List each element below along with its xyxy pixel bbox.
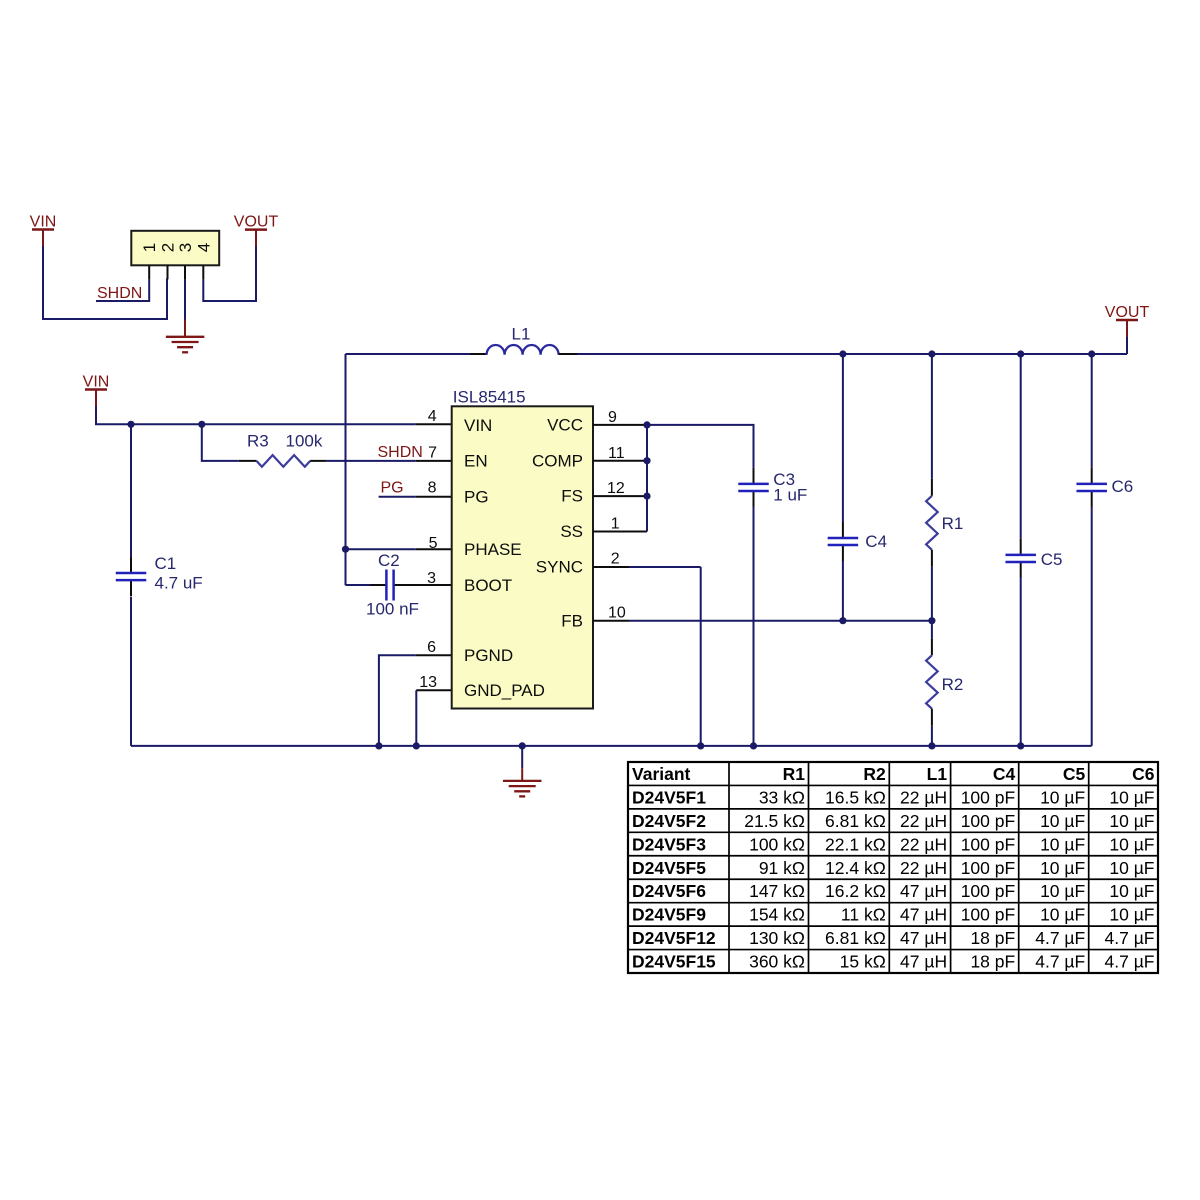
svg-text:D24V5F2: D24V5F2 bbox=[632, 811, 706, 831]
svg-text:R1: R1 bbox=[942, 514, 964, 533]
svg-text:100 pF: 100 pF bbox=[961, 858, 1015, 878]
svg-text:D24V5F5: D24V5F5 bbox=[632, 858, 706, 878]
svg-text:12.4 kΩ: 12.4 kΩ bbox=[825, 858, 886, 878]
svg-text:100 kΩ: 100 kΩ bbox=[749, 834, 805, 854]
svg-text:FS: FS bbox=[561, 487, 583, 506]
svg-text:33 kΩ: 33 kΩ bbox=[759, 787, 805, 807]
svg-text:4.7 µF: 4.7 µF bbox=[1105, 928, 1155, 948]
svg-text:12: 12 bbox=[607, 480, 625, 497]
svg-text:360 kΩ: 360 kΩ bbox=[749, 952, 805, 972]
svg-text:FB: FB bbox=[561, 611, 583, 630]
svg-text:COMP: COMP bbox=[532, 451, 583, 470]
svg-text:BOOT: BOOT bbox=[464, 576, 512, 595]
svg-text:PG: PG bbox=[464, 487, 489, 506]
svg-text:D24V5F9: D24V5F9 bbox=[632, 905, 706, 925]
svg-text:6.81 kΩ: 6.81 kΩ bbox=[825, 928, 886, 948]
svg-text:PG: PG bbox=[381, 479, 404, 496]
svg-text:6.81 kΩ: 6.81 kΩ bbox=[825, 811, 886, 831]
svg-text:10 µF: 10 µF bbox=[1109, 834, 1154, 854]
svg-text:10 µF: 10 µF bbox=[1040, 834, 1085, 854]
svg-text:5: 5 bbox=[429, 535, 438, 552]
svg-text:21.5 kΩ: 21.5 kΩ bbox=[744, 811, 805, 831]
svg-text:1: 1 bbox=[140, 243, 159, 252]
svg-text:130 kΩ: 130 kΩ bbox=[749, 928, 805, 948]
svg-text:L1: L1 bbox=[927, 764, 948, 784]
svg-text:VCC: VCC bbox=[547, 416, 583, 435]
svg-text:147 kΩ: 147 kΩ bbox=[749, 881, 805, 901]
svg-text:18 pF: 18 pF bbox=[970, 928, 1015, 948]
svg-text:3: 3 bbox=[427, 570, 436, 587]
svg-text:8: 8 bbox=[428, 480, 437, 497]
svg-text:10 µF: 10 µF bbox=[1109, 905, 1154, 925]
svg-text:100k: 100k bbox=[286, 432, 323, 451]
svg-text:SYNC: SYNC bbox=[536, 558, 583, 577]
svg-text:C6: C6 bbox=[1132, 764, 1155, 784]
svg-text:PGND: PGND bbox=[464, 646, 513, 665]
svg-text:47 µH: 47 µH bbox=[900, 952, 947, 972]
svg-text:R3: R3 bbox=[247, 432, 269, 451]
svg-text:EN: EN bbox=[464, 452, 488, 471]
svg-text:SS: SS bbox=[560, 522, 583, 541]
svg-text:4: 4 bbox=[428, 408, 437, 425]
svg-text:PHASE: PHASE bbox=[464, 540, 522, 559]
svg-text:6: 6 bbox=[427, 639, 436, 656]
svg-text:Variant: Variant bbox=[632, 764, 691, 784]
svg-text:VOUT: VOUT bbox=[234, 213, 279, 230]
svg-text:SHDN: SHDN bbox=[378, 444, 423, 461]
svg-text:22 µH: 22 µH bbox=[900, 787, 947, 807]
svg-text:7: 7 bbox=[428, 444, 437, 461]
svg-text:10 µF: 10 µF bbox=[1040, 905, 1085, 925]
svg-text:22.1 kΩ: 22.1 kΩ bbox=[825, 834, 886, 854]
svg-text:C1: C1 bbox=[155, 554, 177, 573]
svg-text:GND_PAD: GND_PAD bbox=[464, 681, 545, 700]
svg-text:C4: C4 bbox=[865, 532, 887, 551]
svg-text:22 µH: 22 µH bbox=[900, 858, 947, 878]
svg-text:4.7 µF: 4.7 µF bbox=[1035, 928, 1085, 948]
svg-text:9: 9 bbox=[608, 409, 617, 426]
svg-text:10 µF: 10 µF bbox=[1040, 881, 1085, 901]
svg-text:4.7 µF: 4.7 µF bbox=[1105, 952, 1155, 972]
svg-text:10 µF: 10 µF bbox=[1040, 858, 1085, 878]
svg-text:100 pF: 100 pF bbox=[961, 811, 1015, 831]
svg-text:C5: C5 bbox=[1063, 764, 1086, 784]
svg-text:C4: C4 bbox=[993, 764, 1016, 784]
svg-text:D24V5F3: D24V5F3 bbox=[632, 834, 706, 854]
svg-text:2: 2 bbox=[159, 243, 178, 252]
svg-text:16.5 kΩ: 16.5 kΩ bbox=[825, 787, 886, 807]
svg-text:47 µH: 47 µH bbox=[900, 928, 947, 948]
svg-text:10: 10 bbox=[608, 605, 626, 622]
svg-text:D24V5F6: D24V5F6 bbox=[632, 881, 706, 901]
svg-text:VIN: VIN bbox=[30, 213, 57, 230]
svg-text:SHDN: SHDN bbox=[97, 285, 142, 302]
svg-text:D24V5F1: D24V5F1 bbox=[632, 787, 706, 807]
svg-text:22 µH: 22 µH bbox=[900, 834, 947, 854]
svg-text:VIN: VIN bbox=[83, 373, 110, 390]
svg-text:47 µH: 47 µH bbox=[900, 881, 947, 901]
svg-text:16.2 kΩ: 16.2 kΩ bbox=[825, 881, 886, 901]
svg-text:1 uF: 1 uF bbox=[773, 485, 807, 504]
svg-text:D24V5F15: D24V5F15 bbox=[632, 952, 716, 972]
svg-text:100 pF: 100 pF bbox=[961, 834, 1015, 854]
svg-text:4.7 µF: 4.7 µF bbox=[1035, 952, 1085, 972]
svg-text:10 µF: 10 µF bbox=[1040, 787, 1085, 807]
svg-text:R1: R1 bbox=[783, 764, 806, 784]
svg-text:2: 2 bbox=[611, 551, 620, 568]
svg-text:4.7 uF: 4.7 uF bbox=[155, 574, 203, 593]
svg-text:VIN: VIN bbox=[464, 416, 492, 435]
svg-text:10 µF: 10 µF bbox=[1109, 811, 1154, 831]
svg-text:R2: R2 bbox=[863, 764, 886, 784]
svg-text:L1: L1 bbox=[512, 325, 531, 344]
svg-text:C5: C5 bbox=[1041, 550, 1063, 569]
svg-text:ISL85415: ISL85415 bbox=[453, 388, 526, 407]
svg-text:18 pF: 18 pF bbox=[970, 952, 1015, 972]
svg-text:100 pF: 100 pF bbox=[961, 905, 1015, 925]
svg-text:15 kΩ: 15 kΩ bbox=[840, 952, 886, 972]
svg-text:11 kΩ: 11 kΩ bbox=[841, 905, 886, 925]
svg-text:100 pF: 100 pF bbox=[961, 787, 1015, 807]
svg-text:D24V5F12: D24V5F12 bbox=[632, 928, 716, 948]
svg-text:10 µF: 10 µF bbox=[1109, 881, 1154, 901]
svg-text:R2: R2 bbox=[942, 675, 964, 694]
svg-text:4: 4 bbox=[194, 243, 213, 252]
svg-text:22 µH: 22 µH bbox=[900, 811, 947, 831]
svg-text:13: 13 bbox=[419, 674, 437, 691]
svg-text:100 pF: 100 pF bbox=[961, 881, 1015, 901]
svg-text:C6: C6 bbox=[1112, 477, 1134, 496]
svg-text:91 kΩ: 91 kΩ bbox=[759, 858, 805, 878]
svg-text:100 nF: 100 nF bbox=[366, 600, 419, 619]
svg-text:11: 11 bbox=[608, 445, 625, 462]
svg-text:3: 3 bbox=[176, 243, 195, 252]
svg-text:47 µH: 47 µH bbox=[900, 905, 947, 925]
svg-text:1: 1 bbox=[611, 515, 620, 532]
svg-text:C2: C2 bbox=[378, 551, 400, 570]
svg-text:VOUT: VOUT bbox=[1105, 304, 1150, 321]
svg-text:10 µF: 10 µF bbox=[1109, 858, 1154, 878]
svg-text:10 µF: 10 µF bbox=[1109, 787, 1154, 807]
svg-text:10 µF: 10 µF bbox=[1040, 811, 1085, 831]
svg-text:154 kΩ: 154 kΩ bbox=[749, 905, 805, 925]
